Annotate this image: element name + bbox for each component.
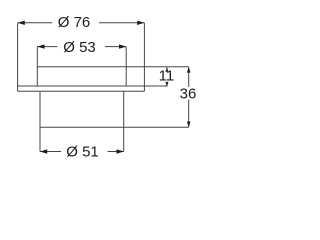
tube left wall / Ø51 left extension line: [39, 91, 41, 151]
flange right edge / Ø76 right extension line: [143, 23, 145, 91]
arrow Ø51 right: [117, 149, 124, 153]
arrow 11 down: [165, 82, 168, 87]
svg-text:Ø 53: Ø 53: [63, 39, 96, 56]
dimension line Ø76: [18, 22, 52, 24]
arrow 11 up: [165, 67, 168, 72]
arrow Ø76 right: [137, 21, 144, 25]
dimension line Ø53: [37, 46, 57, 48]
arrow Ø53 right: [119, 44, 126, 48]
arrow Ø51 left: [40, 149, 47, 153]
rim top line (extends right to 36 dim): [37, 66, 188, 68]
dimension line 36 (vertical): [188, 67, 190, 87]
arrow Ø53 left: [37, 44, 44, 48]
flange bottom line: [18, 90, 145, 92]
flange left edge / Ø76 left extension line: [17, 23, 19, 92]
svg-text:11: 11: [159, 68, 175, 85]
dimension line 11 (vertical stubs): [166, 67, 168, 71]
tube bottom line (extends right to 36 dim): [40, 126, 189, 128]
tube right wall / Ø51 right extension line: [123, 91, 125, 151]
recess left wall / Ø53 left extension line: [36, 47, 38, 86]
recess right wall / Ø53 right extension line: [125, 47, 127, 86]
flange top line (extends right to 11 dim): [18, 85, 168, 87]
dimension line Ø51: [40, 151, 61, 153]
svg-text:36: 36: [180, 86, 197, 103]
arrow 36 down: [187, 122, 191, 128]
arrow Ø76 left: [18, 21, 25, 25]
arrow 36 up: [187, 67, 191, 73]
svg-text:Ø 76: Ø 76: [58, 14, 91, 31]
svg-text:Ø 51: Ø 51: [66, 144, 99, 161]
